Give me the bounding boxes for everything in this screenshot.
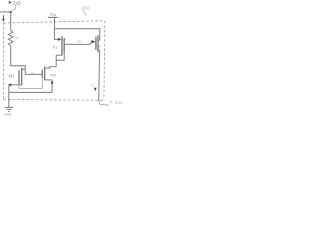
transistor M3 source lead: [45, 79, 52, 81]
transistor P1 drain lead: [56, 54, 62, 56]
transistor P4 drain lead: [98, 49, 100, 51]
transistor P1 diode connection jog: [56, 52, 64, 60]
Vdd symbol T-bar: [48, 16, 57, 18]
ground symbol: [5, 107, 13, 111]
dashed box right border: [104, 21, 105, 100]
svg-text:P1: P1: [53, 44, 59, 49]
svg-text:M2: M2: [9, 74, 15, 79]
wire ground bus: [9, 80, 52, 93]
svg-text:P4: P4: [96, 44, 101, 48]
wire Vdd stem down to P1 source: [55, 17, 59, 39]
transistor M2 channel bar: [21, 68, 23, 85]
output current arrow: [94, 88, 97, 91]
svg-text:27: 27: [91, 84, 95, 88]
wire Vdd rail to P4: [55, 29, 100, 41]
resistor R1 zigzag: [8, 31, 13, 46]
input label arrowhead: [9, 1, 12, 4]
transistor P1 channel bar: [61, 36, 63, 55]
transistor P1 gate bar: [63, 38, 65, 52]
gate wire P1 to P4: [64, 42, 92, 44]
svg-text:240: 240: [82, 5, 90, 10]
arrow on top of left border: [2, 15, 5, 22]
transistor P1 source arrow: [58, 38, 61, 41]
transistor P4 gate bar: [95, 37, 97, 50]
transistor P4 top lead: [98, 39, 100, 41]
svg-text:Vdd: Vdd: [50, 11, 57, 17]
transistor M3 source arrow: [51, 82, 54, 86]
dashed box top border: [3, 21, 105, 23]
wire M2 gate drop to gate bus: [19, 78, 42, 89]
transistor M2 drain lead: [22, 68, 26, 70]
leader from 240 to dashed box: [83, 10, 86, 15]
svg-text:Gnd: Gnd: [4, 112, 11, 116]
wire input from left edge: [0, 11, 11, 13]
dashed box left border: [2, 23, 4, 100]
transistor M3 gate wire to M2 drain node: [25, 73, 42, 75]
wire P1 drain down to M3: [55, 55, 57, 67]
gate wire arrowhead at P4: [92, 40, 96, 43]
wire M2 source down to ground junction: [8, 85, 10, 107]
wire resistor down to M2 drain node: [11, 46, 26, 75]
wire input node down to resistor: [10, 12, 12, 31]
transistor M3 drain lead: [45, 67, 57, 68]
transistor M3 gate bar: [41, 69, 43, 77]
transistor M2 gate bar: [18, 70, 20, 84]
wire P4 drain down to output: [98, 50, 101, 101]
transistor P4 channel bar: [97, 35, 99, 52]
node dot (input node): [9, 11, 12, 14]
transistor M2 source arrow: [8, 83, 11, 86]
leader from label to input node: [11, 5, 16, 11]
svg-text:P_bias: P_bias: [110, 100, 124, 105]
svg-text:241: 241: [77, 40, 82, 44]
svg-text:M3: M3: [50, 73, 56, 78]
dashed box bottom border: [3, 98, 104, 101]
transistor M3 channel bar: [44, 67, 46, 81]
transistor M2 source lead: [11, 84, 22, 86]
svg-text:R1: R1: [14, 36, 19, 40]
svg-text:2x5: 2x5: [12, 1, 20, 7]
output squiggle wire: [99, 101, 109, 106]
